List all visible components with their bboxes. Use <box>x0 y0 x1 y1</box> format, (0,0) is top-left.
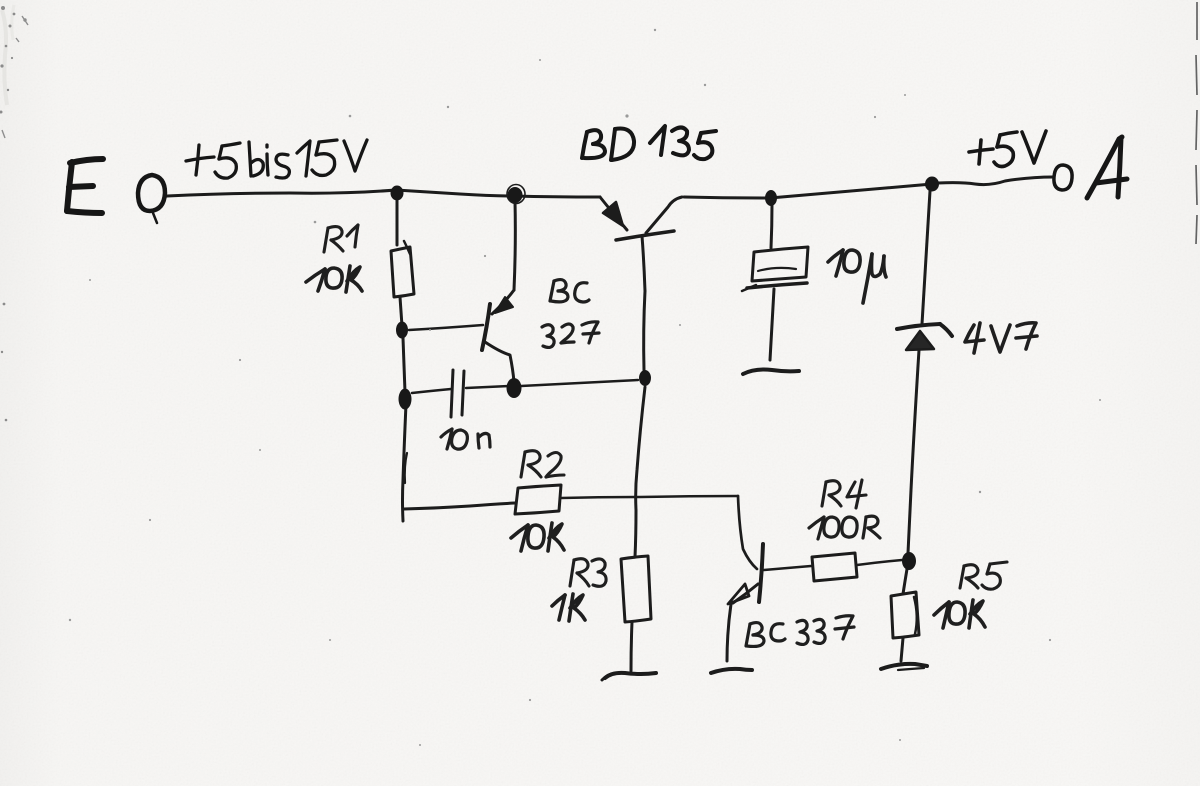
wire R4 to node F <box>857 560 902 565</box>
capacitor C1 10n plate right <box>462 371 464 415</box>
ground below R3 <box>605 673 656 678</box>
label 10u <box>828 250 886 303</box>
wire 10u to ground <box>770 289 774 360</box>
wire BC327 base <box>409 325 483 330</box>
wire center vertical to R3 <box>644 291 645 370</box>
terminal E circle <box>138 175 165 211</box>
wire bend to R2 <box>404 503 515 509</box>
label BC 327 <box>542 280 599 348</box>
wire zener down to node F <box>908 350 919 553</box>
label BC337 <box>746 616 854 647</box>
wire BC337 emitter down <box>727 604 731 661</box>
node F <box>902 552 916 570</box>
node J3 <box>765 190 777 206</box>
label R2 <box>521 451 564 477</box>
wire BD135 collector down <box>642 236 645 291</box>
right edge scan line <box>1196 2 1197 244</box>
resistor R3 <box>621 556 651 622</box>
wire node C to capacitor 10n <box>412 389 451 393</box>
label A <box>1087 137 1127 198</box>
wire R2 right <box>561 496 738 498</box>
wire R2 bend down <box>738 496 757 569</box>
paper speckles and edge artifacts <box>0 6 27 421</box>
label BD 135 <box>582 126 716 160</box>
label 10n <box>441 429 490 449</box>
capacitor C2 10u minus plate <box>747 283 807 288</box>
capacitor C2 10u plus plate <box>752 247 808 281</box>
label +5 bis 15V <box>186 140 367 178</box>
node C <box>399 389 412 410</box>
wire rail J2 to BD135 <box>514 196 600 197</box>
label 4V7 <box>965 323 1037 353</box>
wire J1 down to R1 <box>396 199 399 245</box>
wire J4 to output terminal <box>938 177 1053 185</box>
transistor Q3 BC337 bar <box>759 544 763 602</box>
transistor Q2 BC327 bar <box>482 304 490 350</box>
node J4 <box>925 177 939 192</box>
wire rail BD135 to J3 <box>684 197 770 198</box>
wire BC327 emitter vertical from J2 <box>514 201 515 290</box>
label R1 <box>324 225 358 252</box>
resistor R5 <box>891 592 919 638</box>
wire node B down to node C <box>403 338 405 392</box>
label 100R <box>809 516 880 539</box>
node E <box>639 370 651 386</box>
node J1 <box>391 186 404 201</box>
resistor R4 <box>812 553 857 581</box>
ground below R5 <box>881 664 927 669</box>
label R3 <box>570 559 606 587</box>
wire R5 to ground <box>901 638 903 661</box>
paper smudge top-left <box>2 10 7 105</box>
wire J3 down to 10u <box>771 204 772 248</box>
wire BC327 collector <box>485 342 514 382</box>
transistor Q1 BD135 <box>600 197 627 230</box>
node J2 <box>508 187 523 203</box>
ground below BC337 <box>711 669 752 673</box>
wire rail J1 to J2 <box>396 190 514 196</box>
wire BC337 collector to R4 <box>764 566 811 570</box>
label +5V <box>969 131 1046 167</box>
label 10k R2 <box>511 523 564 551</box>
wire 10n to node D <box>466 386 510 388</box>
label E <box>67 159 103 213</box>
wire rail J3 to J4 <box>770 184 932 198</box>
BC327 emitter arrow <box>495 297 513 313</box>
wire BC337 emitter diagonal <box>733 584 758 603</box>
label 1k R3 <box>552 594 585 621</box>
zener diode D1 anode triangle <box>906 331 934 350</box>
wire input rail left <box>167 190 396 196</box>
label 10k R1 <box>306 266 362 292</box>
node D <box>507 378 522 398</box>
resistor R2 <box>515 485 561 514</box>
wire BC327 emitter diagonal <box>492 290 514 314</box>
terminal A circle <box>1054 165 1072 190</box>
wire R1 bottom to node B <box>400 297 402 326</box>
resistor R1 <box>391 247 414 297</box>
node B <box>396 322 408 339</box>
wire node F to R5 <box>903 569 907 594</box>
wire doubled stroke segment <box>405 453 407 483</box>
label 10k R5 <box>934 600 985 628</box>
zener diode D1 4V7 cathode bar <box>897 324 940 329</box>
wire R3 to ground <box>631 622 632 671</box>
capacitor C1 10n plate left <box>451 370 453 417</box>
wire node C down to bend <box>403 404 407 521</box>
label R5 <box>960 562 1007 589</box>
wire J4 down to zener <box>922 191 930 324</box>
BC337 emitter arrow <box>728 584 749 604</box>
label R4 <box>822 480 866 508</box>
wire node D to node E <box>521 380 638 386</box>
ground below 10u <box>743 370 799 375</box>
